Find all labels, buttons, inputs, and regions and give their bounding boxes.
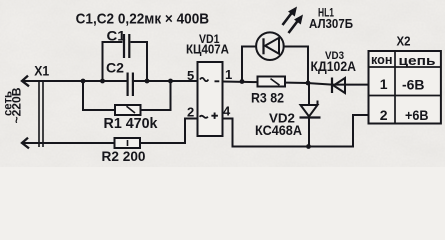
- label VD2: [269, 110, 295, 125]
- label VD1: [199, 34, 220, 46]
- capacitor C2: [128, 73, 133, 97]
- wire bottom rail left: [38, 142, 115, 144]
- zener diode VD2: [300, 83, 321, 147]
- resistor R3: [258, 77, 286, 87]
- X2 contact 2: [380, 107, 388, 123]
- node VD2 bottom: [306, 144, 311, 149]
- svg-text:R2 200: R2 200: [102, 148, 146, 164]
- wire top rail left: [38, 80, 127, 82]
- X2 net +6В: [405, 107, 429, 123]
- wire R1 branch: [83, 81, 171, 110]
- pin 4: [223, 104, 231, 119]
- connector X1 label: [34, 64, 49, 79]
- label R3 82: [251, 90, 284, 106]
- X1 top arrow: [22, 76, 44, 87]
- svg-text:4: 4: [223, 104, 231, 119]
- svg-text:X2: X2: [397, 34, 411, 49]
- X1 bottom arrow: [22, 138, 44, 149]
- svg-text:АЛ307Б: АЛ307Б: [309, 16, 353, 31]
- net label сеть: [0, 91, 14, 116]
- svg-text:5: 5: [187, 68, 194, 83]
- X1 connector double lines: [39, 80, 43, 147]
- label C2: [106, 61, 124, 76]
- svg-text:2: 2: [187, 104, 194, 119]
- svg-text:X1: X1: [34, 64, 49, 79]
- label VD3: [325, 50, 344, 62]
- HL1 light arrow 1: [283, 7, 298, 26]
- pin 1: [225, 67, 232, 82]
- label X2: [397, 34, 411, 49]
- node LED left: [240, 79, 245, 84]
- svg-text:R1 470k: R1 470k: [104, 116, 159, 132]
- svg-text:КД102А: КД102А: [311, 58, 357, 74]
- HL1 light arrow 2: [289, 15, 304, 34]
- label C1,C2 value: [76, 10, 210, 27]
- wire top rail right of C2: [134, 80, 199, 82]
- wire R2 to pin 2: [140, 119, 198, 144]
- label КЦ407А: [186, 42, 230, 57]
- node C1 left: [100, 79, 105, 84]
- svg-text:C2: C2: [106, 61, 124, 76]
- label кон: [371, 53, 393, 67]
- label КД102А: [311, 58, 357, 74]
- X2 net -6В: [402, 77, 425, 93]
- pin 2: [187, 104, 194, 119]
- label R2 200: [102, 148, 146, 164]
- svg-text:-6В: -6В: [402, 77, 425, 93]
- wire C1 branch: [103, 42, 148, 81]
- diode VD3: [332, 78, 345, 94]
- label R1 470k: [104, 116, 159, 132]
- svg-text:цепь: цепь: [399, 53, 436, 68]
- node R1 left: [81, 79, 86, 84]
- pin 5: [187, 68, 194, 83]
- node R1 right: [168, 79, 173, 84]
- svg-text:~220В: ~220В: [9, 87, 23, 123]
- wire pin4 plus rail: [223, 115, 369, 147]
- connector X2 table: [369, 51, 441, 124]
- capacitor C1: [124, 34, 129, 58]
- label АЛ307Б: [309, 16, 353, 31]
- svg-text:2: 2: [380, 107, 388, 123]
- X2 contact 1: [380, 76, 388, 92]
- label HL1: [318, 6, 334, 20]
- label цепь: [399, 53, 436, 68]
- bridge rectifier VD1: [198, 62, 223, 136]
- svg-text:КЦ407А: КЦ407А: [186, 42, 230, 57]
- svg-text:кон: кон: [371, 53, 393, 67]
- svg-text:+6В: +6В: [405, 107, 429, 123]
- svg-text:1: 1: [380, 76, 388, 92]
- net label ~220В: [9, 87, 23, 123]
- label КС468А: [255, 122, 302, 138]
- wire pin1 output rail: [223, 82, 369, 85]
- svg-text:1: 1: [225, 67, 232, 82]
- wire LED branch: [242, 47, 308, 84]
- svg-text:C1: C1: [107, 29, 127, 44]
- node C1 right: [145, 79, 150, 84]
- resistor R1: [115, 105, 141, 115]
- svg-text:C1,C2 0,22мк × 400В: C1,C2 0,22мк × 400В: [76, 10, 210, 27]
- resistor R2: [115, 138, 141, 148]
- node R3 right: [306, 81, 311, 86]
- svg-text:R3 82: R3 82: [251, 90, 284, 106]
- svg-text:КС468А: КС468А: [255, 122, 302, 138]
- LED HL1: [256, 32, 284, 60]
- label C1: [107, 29, 127, 44]
